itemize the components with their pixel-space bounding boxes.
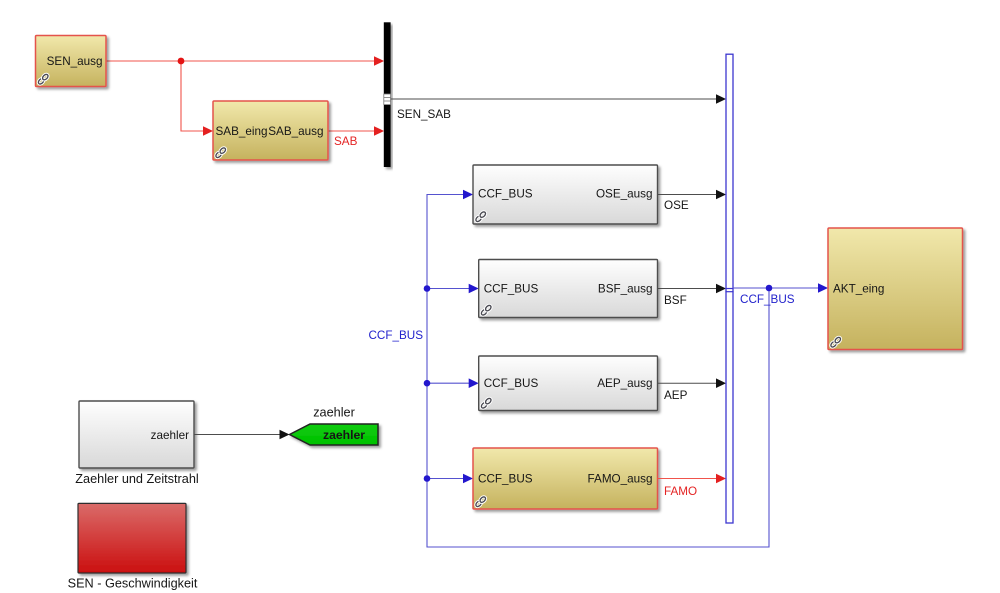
block Zaehler und Zeitstrahl [79,401,194,468]
arrowhead into goto tag [280,430,290,440]
svg-text:SAB_eing: SAB_eing [216,125,268,138]
svg-text:FAMO_ausg: FAMO_ausg [588,473,653,486]
wire zaehler to goto tag [194,434,280,436]
svg-text:AKT_eing: AKT_eing [833,283,884,296]
block CCF_BUS AEP [479,356,658,411]
wire SAB_ausg to bus selector [328,130,375,132]
bus creator [726,54,733,523]
svg-text:SEN_SAB: SEN_SAB [397,108,451,121]
svg-text:CCF_BUS: CCF_BUS [484,377,539,390]
wire BSF (black) [658,288,718,290]
svg-text:CCF_BUS: CCF_BUS [478,188,533,201]
block AKT_eing [828,228,963,350]
link badge SEN_ausg [37,73,49,85]
junction dot red [178,58,185,65]
svg-text:zaehler: zaehler [151,429,189,442]
svg-text:SAB_ausg: SAB_ausg [268,125,323,138]
block CCF_BUS BSF [479,260,658,318]
svg-text:CCF_BUS: CCF_BUS [484,283,539,296]
svg-text:OSE_ausg: OSE_ausg [596,188,653,201]
svg-text:zaehler: zaehler [313,406,355,420]
arrowhead into bus selector (SAB row) [374,126,384,136]
blue junction dot [766,285,773,292]
arrowhead SEN_SAB into bus creator [716,94,726,104]
svg-text:AEP: AEP [664,389,688,402]
blue junction dots [424,285,431,292]
block SEN_ausg [36,36,107,87]
goto tag zaehler [290,424,379,445]
svg-text:CCF_BUS: CCF_BUS [478,473,533,486]
bus selector bar [384,22,391,167]
svg-text:FAMO: FAMO [664,485,697,498]
block CCF_BUS FAMO [473,448,658,509]
svg-text:BSF_ausg: BSF_ausg [598,283,653,296]
wire FAMO (red) [658,478,718,480]
svg-text:AEP_ausg: AEP_ausg [597,377,652,390]
wire AEP (black) [658,382,718,384]
block SAB [213,101,328,160]
svg-text:zaehler: zaehler [323,428,365,442]
bus selector port marker [384,94,391,105]
link badge SAB [215,147,227,159]
bus creator output port marker [725,288,733,290]
svg-text:CCF_BUS: CCF_BUS [368,329,423,342]
svg-text:SAB: SAB [334,135,358,148]
blue arrowheads into CCF_BUS blocks [463,190,473,200]
svg-text:BSF: BSF [664,294,687,307]
svg-text:SEN_ausg: SEN_ausg [47,55,103,68]
blue arrowhead into AKT_eing [818,283,828,293]
block CCF_BUS OSE [473,165,658,224]
svg-text:OSE: OSE [664,199,689,212]
arrowhead into bus selector (SEN row) [374,56,384,66]
wire branch down to SAB_eing [181,61,204,131]
wire SEN_SAB (black) [391,98,717,100]
svg-text:CCF_BUS: CCF_BUS [740,293,795,306]
svg-text:Zaehler und Zeitstrahl: Zaehler und Zeitstrahl [75,472,198,486]
wire SEN_ausg to bus selector [106,60,375,62]
wire bus creator to AKT_eing (blue) [733,287,819,289]
arrowhead into SAB_eing [203,126,213,136]
wire OSE (black) [658,194,718,196]
svg-text:SEN - Geschwindigkeit: SEN - Geschwindigkeit [68,577,198,591]
block SEN - Geschwindigkeit [78,503,186,573]
blue feedback wire CCF_BUS [427,195,769,548]
